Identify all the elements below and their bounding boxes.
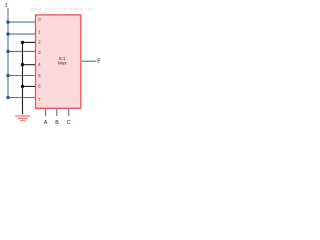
node junction row6 — [21, 85, 24, 88]
wire select B stub — [56, 109, 58, 116]
svg-text:1: 1 — [5, 3, 8, 9]
svg-text:F: F — [97, 59, 101, 65]
wire ground vertical rail — [22, 42, 24, 114]
node junction row5 — [6, 74, 9, 77]
wire output F — [82, 60, 97, 62]
wire logic-1 vertical rail — [7, 8, 9, 98]
op-amp U1 : 8:1 Mux block — [36, 15, 81, 108]
wire input 5 — [8, 75, 36, 77]
wire input 6 — [23, 85, 37, 87]
wire select C stub — [68, 109, 70, 116]
wire input 1 — [8, 33, 36, 35]
background — [0, 0, 107, 133]
wire select A stub — [45, 109, 47, 116]
svg-text:A: A — [44, 120, 48, 126]
wire input 7 — [8, 97, 36, 99]
node junction row2 — [21, 41, 24, 44]
svg-text:C: C — [67, 120, 71, 126]
svg-text:www.electronicsforu.com: www.electronicsforu.com — [31, 7, 96, 12]
wire input 2 — [23, 41, 37, 43]
wire input 0 — [8, 21, 36, 23]
node junction row1 — [6, 32, 9, 35]
node junction row4 — [21, 63, 24, 66]
svg-text:B: B — [55, 120, 59, 126]
wire input 4 — [23, 64, 37, 66]
node junction row7 — [6, 96, 9, 99]
node junction row0 — [6, 20, 9, 23]
ground — [15, 115, 30, 121]
node junction row3 — [6, 50, 9, 53]
svg-text:Mux: Mux — [58, 60, 67, 65]
wire input 3 — [8, 50, 36, 52]
